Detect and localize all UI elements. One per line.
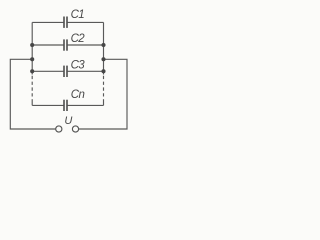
svg-text:C1: C1 <box>71 9 85 21</box>
svg-text:C2: C2 <box>71 33 86 45</box>
svg-text:C3: C3 <box>71 59 86 71</box>
svg-text:Cn: Cn <box>71 89 85 101</box>
svg-text:U: U <box>64 115 72 127</box>
